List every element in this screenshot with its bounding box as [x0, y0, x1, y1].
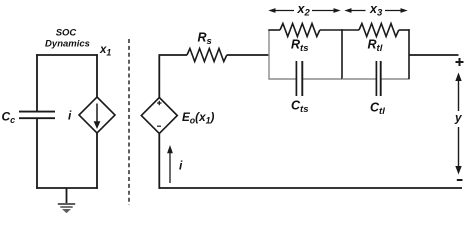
resistor Rts (top side of block 1) [268, 24, 342, 55]
arrow y (output voltage) [454, 73, 463, 175]
ground [58, 188, 75, 213]
label SOC Dynamics [45, 28, 90, 50]
wire bottom rail [159, 187, 462, 189]
wire output to + terminal [409, 54, 459, 56]
terminal + [456, 58, 464, 66]
terminal - [457, 179, 463, 181]
wire top side of SOC box [36, 54, 98, 56]
RC block 2 gray outline (bottom with gap for Ctl) [342, 78, 410, 80]
wire middle vertical (node between blocks) [341, 29, 343, 79]
current source i (dependent, diamond) [68, 97, 115, 133]
wire right vertical of block 2 [408, 29, 410, 79]
boundary dashed line [128, 39, 130, 205]
svg-text:Eo(x1): Eo(x1) [182, 111, 214, 125]
RC block 1 gray outline (left side and bottom with gap for Cts) [268, 30, 342, 79]
wire bottom side of SOC box [36, 187, 98, 189]
wire left side upper (SOC box) [36, 54, 38, 111]
resistor Rs [187, 31, 227, 62]
svg-text:SOC: SOC [56, 28, 77, 39]
wire right side lower (SOC box) [96, 133, 98, 189]
wire left side lower (SOC box) [36, 119, 38, 189]
capacitor Cc [2, 110, 56, 126]
wire from Rs to RC block 1 [227, 54, 269, 56]
wire from Eo bottom to bottom rail [158, 134, 160, 189]
wire right side upper (SOC box) [96, 54, 98, 98]
voltage source Eo(x1) (dependent, diamond) [141, 98, 214, 134]
capacitor Cts (bottom side of block 1) [291, 61, 308, 115]
dimension arrow x3 [344, 2, 407, 19]
wire from Eo top to Rs [159, 55, 187, 98]
dimension arrow x2 [268, 2, 340, 19]
current arrow i (annotation) [167, 145, 183, 183]
svg-text:Dynamics: Dynamics [45, 38, 90, 49]
capacitor Ctl (bottom side of block 2) [370, 61, 385, 117]
resistor Rtl (top side of block 2) [342, 24, 410, 55]
